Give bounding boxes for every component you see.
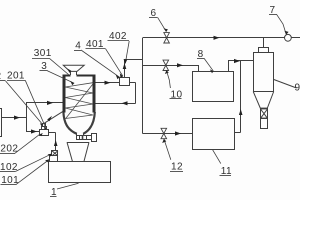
svg-text:301: 301 (34, 48, 52, 59)
svg-text:201: 201 (7, 71, 25, 82)
svg-text:9: 9 (295, 83, 301, 94)
svg-text:12: 12 (171, 162, 183, 173)
svg-text:4: 4 (75, 40, 81, 51)
svg-text:202: 202 (0, 144, 18, 155)
